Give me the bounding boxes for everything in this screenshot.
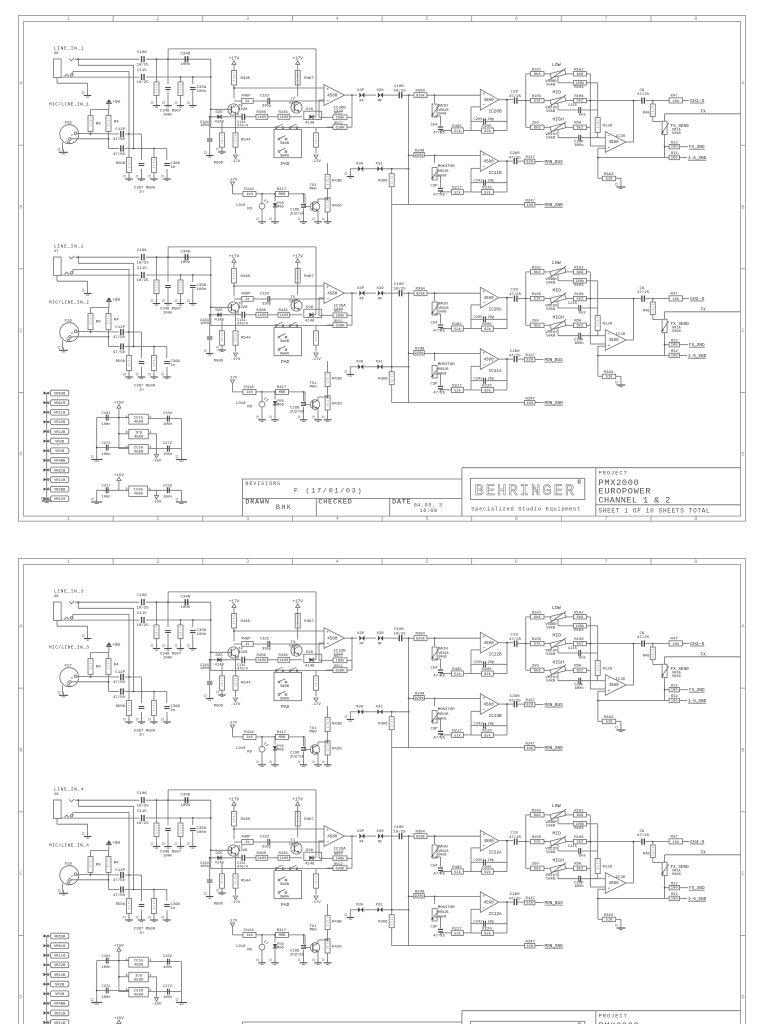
- power flag +17V: [229, 57, 240, 65]
- junction: [506, 358, 508, 360]
- label time value: [420, 508, 438, 514]
- power flag +17V: [229, 600, 240, 608]
- wire: [435, 374, 441, 385]
- resistor R509: [152, 356, 157, 371]
- svg-text:4580: 4580: [609, 338, 620, 343]
- wire: [315, 326, 317, 352]
- resistor R508: [116, 158, 132, 173]
- wire: [626, 101, 633, 142]
- svg-text:100: 100: [671, 689, 679, 693]
- wire: [233, 927, 244, 935]
- svg-text:R48: R48: [643, 655, 651, 659]
- resistor R467: [295, 71, 314, 86]
- svg-text:1n: 1n: [139, 734, 144, 738]
- wire: [586, 626, 597, 653]
- resistor R217: [452, 186, 464, 195]
- transistor T2: [228, 845, 248, 856]
- resistor R4: [106, 857, 119, 873]
- wire: [665, 146, 670, 148]
- wire: [233, 826, 235, 840]
- svg-text:R544: R544: [241, 682, 251, 686]
- resistor R60: [573, 320, 586, 329]
- svg-text:−: −: [608, 677, 611, 682]
- wire: [125, 134, 142, 160]
- svg-text:3320: 3320: [238, 306, 248, 310]
- capacitor C255: [474, 118, 495, 124]
- wire: [566, 73, 573, 75]
- svg-text:2: 2: [156, 16, 159, 22]
- svg-text:MID: MID: [553, 90, 562, 96]
- wire: [253, 643, 324, 645]
- power flag +17V: [292, 600, 303, 608]
- wire: [233, 729, 244, 737]
- capacitor C141: [237, 855, 248, 870]
- wire: [235, 690, 237, 696]
- capacitor C242: [474, 722, 495, 728]
- svg-text:100n: 100n: [163, 996, 172, 1000]
- wire: [180, 96, 182, 104]
- svg-text:R552: R552: [334, 320, 343, 324]
- wire: [586, 100, 590, 102]
- svg-text:C215: C215: [568, 647, 578, 651]
- capacitor C348: [181, 794, 191, 809]
- svg-text:47/25: 47/25: [637, 290, 650, 295]
- svg-text:®: ®: [578, 479, 582, 486]
- wire: [589, 815, 591, 887]
- svg-text:R467: R467: [304, 818, 314, 822]
- ground: [204, 695, 213, 700]
- svg-text:920k: 920k: [416, 94, 426, 99]
- resistor R249: [414, 890, 425, 899]
- ground: [313, 761, 322, 766]
- resistor R507: [178, 625, 183, 639]
- svg-text:+: +: [326, 829, 329, 834]
- wire: [211, 108, 231, 110]
- svg-text:+: +: [483, 92, 486, 97]
- net label FX_SND: [689, 343, 705, 348]
- resistor R48: [643, 104, 656, 117]
- resistor R467: [295, 269, 314, 284]
- wire: [558, 130, 598, 138]
- resistor R552: [333, 320, 347, 329]
- svg-text:SHEET 1 OF 10 SHEETS TOTAL: SHEET 1 OF 10 SHEETS TOTAL: [599, 508, 711, 515]
- svg-text:6k8: 6k8: [534, 866, 542, 871]
- svg-text:IC20A: IC20A: [489, 308, 502, 313]
- svg-text:R420: R420: [332, 403, 342, 407]
- registered mark: [578, 1022, 582, 1024]
- svg-text:+: +: [326, 88, 329, 93]
- wire: [424, 895, 480, 897]
- diode F50: [273, 935, 285, 961]
- resistor R60: [573, 122, 586, 131]
- wire: [319, 643, 324, 660]
- svg-text:100n: 100n: [197, 633, 207, 637]
- wire: [645, 643, 669, 645]
- svg-text:PROJECT: PROJECT: [599, 471, 628, 477]
- ground: [58, 692, 68, 697]
- wire: [598, 148, 605, 178]
- wire: [471, 120, 507, 122]
- resistor R544: [233, 874, 251, 888]
- junction: [525, 298, 527, 300]
- wire: [167, 289, 169, 302]
- svg-text:X31: X31: [376, 163, 384, 167]
- wire: [351, 293, 353, 315]
- resistor R465: [232, 71, 251, 86]
- potentiometer VR1A (FX_SEND): [661, 862, 689, 877]
- resistor R105: [530, 95, 544, 104]
- svg-text:R217: R217: [452, 927, 462, 931]
- svg-text:47/25: 47/25: [433, 674, 445, 679]
- wire: [148, 434, 156, 455]
- wire: [146, 256, 211, 258]
- wire: [586, 126, 590, 128]
- svg-text:R43B: R43B: [332, 180, 342, 184]
- capacitor C341: [200, 319, 213, 339]
- svg-text:RF: RF: [378, 298, 382, 302]
- ground: [270, 416, 279, 421]
- capacitor C271: [102, 442, 112, 457]
- resistor R495: [452, 125, 464, 134]
- svg-text:16:08: 16:08: [420, 508, 438, 514]
- capacitor C106: [137, 249, 150, 266]
- op-amp IC22B: [480, 632, 502, 657]
- label FX: [701, 653, 707, 658]
- wire: [535, 204, 544, 206]
- switch block PAD: [274, 130, 302, 159]
- wire: [350, 169, 358, 175]
- wire: [129, 367, 167, 375]
- svg-text:LD10: LD10: [236, 204, 246, 208]
- junction: [506, 840, 508, 842]
- capacitor C100: [394, 826, 407, 839]
- resistor R495: [452, 323, 464, 332]
- wire: [156, 59, 158, 82]
- svg-text:C54: C54: [430, 123, 438, 127]
- resistor R557: [333, 310, 347, 319]
- wire: [234, 87, 324, 89]
- junction: [233, 285, 235, 287]
- wire: [544, 867, 550, 869]
- junction: [77, 58, 79, 60]
- capacitor C106: [137, 594, 150, 611]
- label R506: [214, 705, 224, 709]
- svg-text:D25: D25: [216, 309, 224, 313]
- wire: [665, 854, 741, 856]
- wire: [535, 402, 544, 404]
- svg-text:82k: 82k: [484, 931, 492, 936]
- wire: [210, 602, 212, 670]
- svg-text:5k2: 5k2: [577, 99, 584, 104]
- junction: [408, 94, 410, 96]
- wire: [679, 887, 688, 889]
- svg-text:47/50: 47/50: [113, 695, 126, 700]
- wire: [664, 135, 666, 158]
- svg-text:R217: R217: [452, 729, 462, 733]
- wire: [408, 836, 410, 945]
- wire: [180, 620, 182, 625]
- wire: [97, 990, 129, 992]
- wire: [598, 700, 669, 702]
- resistor R420: [325, 741, 342, 755]
- svg-text:2: 2: [71, 331, 73, 335]
- connector X6 label: [54, 52, 59, 56]
- junction: [327, 198, 329, 200]
- potentiometer VR6A (MAIN): [431, 302, 449, 315]
- wire: [383, 835, 398, 837]
- wire: [558, 620, 573, 626]
- label CHECKED: [318, 499, 352, 507]
- junction: [156, 799, 194, 819]
- power flag +15V: [114, 401, 124, 408]
- capacitor C242: [474, 179, 495, 185]
- capacitor C272: [163, 985, 172, 1000]
- connector X3P: [357, 89, 365, 104]
- junction: [434, 896, 436, 898]
- resistor R247: [525, 940, 536, 948]
- net label MIC/LINE_IN_3: [49, 645, 89, 650]
- logo text BEHRINGER: [475, 482, 577, 500]
- resistor R22: [669, 141, 679, 149]
- capacitor C54: [430, 864, 445, 876]
- svg-text:CHECKED: CHECKED: [318, 499, 352, 507]
- resistor R147: [525, 156, 536, 164]
- wire: [471, 643, 507, 674]
- wire: [392, 928, 409, 946]
- connector VR63B: [44, 933, 69, 939]
- connector X8 label: [54, 595, 59, 599]
- svg-text:2U2/50: 2U2/50: [290, 952, 305, 957]
- capacitor C100: [394, 283, 407, 296]
- resistor R507: [178, 280, 183, 294]
- connector X30b: [356, 706, 364, 715]
- wire: [180, 275, 182, 280]
- wire: [327, 387, 329, 396]
- junction: [209, 314, 211, 316]
- wire: [319, 841, 324, 858]
- svg-text:−: −: [483, 647, 486, 652]
- wire: [327, 755, 329, 763]
- jack X6: [54, 58, 75, 78]
- op-amp IC30 (supply): [126, 486, 151, 496]
- resistor R247: [525, 199, 536, 207]
- svg-text:100: 100: [671, 898, 679, 902]
- connector VR11B: [44, 1020, 69, 1024]
- svg-text:1k0: 1k0: [246, 390, 254, 395]
- wire: [210, 59, 212, 127]
- junction: [506, 99, 508, 101]
- junction: [434, 94, 436, 96]
- capacitor C141: [237, 114, 248, 129]
- potentiometer VR21M (MID): [548, 638, 568, 650]
- wire: [289, 194, 311, 207]
- wire: [228, 311, 241, 315]
- ground: [187, 300, 196, 305]
- resistor R460: [242, 836, 254, 846]
- svg-text:C215: C215: [568, 302, 578, 306]
- wire: [297, 262, 299, 294]
- svg-text:SW4A: SW4A: [280, 154, 290, 158]
- svg-text:1k: 1k: [245, 99, 250, 104]
- wire: [57, 819, 88, 835]
- capacitor C271: [102, 985, 112, 1000]
- ground: [187, 102, 196, 107]
- wire: [125, 875, 142, 901]
- wire: [471, 318, 507, 320]
- wire: [71, 880, 119, 890]
- svg-text:100n: 100n: [200, 124, 209, 128]
- svg-text:+9V: +9V: [112, 643, 120, 648]
- wire: [192, 289, 194, 302]
- svg-text:920k: 920k: [416, 637, 426, 642]
- svg-text:SW4A: SW4A: [280, 895, 290, 899]
- svg-text:100k: 100k: [335, 314, 345, 319]
- junction: [153, 346, 155, 348]
- wire: [180, 419, 182, 458]
- svg-text:−: −: [483, 845, 486, 850]
- svg-text:620R: 620R: [335, 867, 345, 871]
- svg-text:51k: 51k: [454, 129, 462, 134]
- svg-text:C323: C323: [260, 637, 270, 641]
- wire: [434, 896, 436, 904]
- wire: [409, 945, 525, 947]
- transistor T4: [228, 647, 248, 658]
- net label CH1-S: [690, 98, 704, 104]
- svg-text:RF: RF: [378, 100, 382, 104]
- ground: [41, 497, 51, 502]
- jack X7: [54, 256, 75, 276]
- svg-text:D26: D26: [306, 849, 314, 853]
- power flag -17V: [311, 698, 321, 707]
- wire: [290, 116, 302, 118]
- wire: [118, 481, 120, 491]
- svg-text:10k: 10k: [672, 297, 680, 302]
- svg-text:820: 820: [526, 704, 534, 708]
- wire: [125, 692, 167, 704]
- transistor T3: [289, 641, 303, 656]
- capacitor C12P: [113, 326, 126, 340]
- op-amp IC20 (supply): [126, 444, 152, 454]
- wire: [192, 634, 194, 647]
- svg-text:R506: R506: [214, 903, 224, 907]
- junction: [77, 256, 79, 258]
- wire: [526, 669, 531, 671]
- junction: [261, 934, 304, 936]
- ground: [163, 843, 172, 848]
- wire: [363, 909, 377, 911]
- resistor R510: [220, 676, 225, 690]
- net label LINE_IN_1: [54, 47, 84, 52]
- potentiometer VR4BR (LOW): [548, 68, 568, 80]
- wire: [73, 71, 129, 74]
- wire: [61, 76, 139, 78]
- revisions table frame: [242, 479, 462, 516]
- wire: [256, 193, 276, 195]
- junction: [506, 642, 508, 644]
- capacitor C356: [190, 284, 207, 292]
- wire: [586, 73, 590, 75]
- junction: [90, 133, 110, 140]
- wire: [73, 614, 129, 617]
- wire: [558, 301, 598, 308]
- wire: [61, 274, 139, 276]
- svg-text:4148: 4148: [215, 121, 225, 125]
- svg-text:1n: 1n: [171, 907, 176, 911]
- wire: [327, 212, 329, 220]
- wire: [383, 94, 398, 96]
- svg-text:47/25: 47/25: [509, 637, 522, 642]
- svg-text:VR6LB: VR6LB: [54, 402, 66, 406]
- ground: [175, 843, 184, 848]
- wire: [679, 157, 687, 159]
- svg-text:920k: 920k: [416, 292, 426, 297]
- wire: [253, 298, 324, 300]
- wire: [424, 352, 480, 354]
- svg-text:50kB: 50kB: [546, 850, 556, 855]
- resistor R32: [669, 695, 679, 703]
- wire: [97, 417, 129, 419]
- ground: [270, 218, 279, 223]
- capacitor C19: [509, 634, 522, 647]
- capacitor C14Q: [113, 688, 126, 699]
- svg-text:47/25: 47/25: [433, 933, 445, 938]
- wire: [118, 408, 120, 449]
- label PROJECT: [599, 471, 628, 477]
- wire: [434, 638, 436, 646]
- wire: [261, 407, 263, 418]
- svg-text:50kB: 50kB: [672, 872, 681, 877]
- capacitor C14Q: [113, 145, 126, 156]
- op-amp IC33B: [324, 628, 346, 657]
- capacitor C6: [637, 632, 650, 647]
- wire: [535, 359, 544, 361]
- junction: [77, 799, 79, 801]
- capacitor C369: [139, 362, 145, 364]
- svg-text:IC30: IC30: [616, 333, 626, 337]
- svg-text:C: C: [741, 328, 744, 334]
- svg-text:C272: C272: [163, 442, 172, 446]
- svg-text:HIGH: HIGH: [553, 116, 565, 122]
- potentiometer VR11H (HIGH): [548, 319, 568, 331]
- wire: [365, 94, 376, 96]
- connector X31: [376, 706, 384, 715]
- junction: [209, 857, 211, 859]
- svg-text:4580: 4580: [484, 159, 495, 164]
- capacitor C166: [290, 737, 306, 763]
- wire: [679, 146, 688, 148]
- svg-text:M00: M00: [310, 187, 318, 191]
- ground: [58, 149, 68, 154]
- svg-text:R508: R508: [116, 360, 126, 364]
- resistor R106: [573, 836, 586, 845]
- wire: [125, 332, 142, 358]
- svg-text:2U2/50: 2U2/50: [290, 409, 305, 414]
- wire: [403, 292, 414, 294]
- svg-text:+: +: [483, 697, 486, 702]
- svg-text:47/25: 47/25: [433, 390, 445, 395]
- wire: [664, 333, 666, 356]
- wire: [392, 187, 409, 205]
- capacitor C141: [237, 657, 248, 672]
- wire: [679, 689, 688, 691]
- label LOW: [552, 62, 561, 68]
- svg-text:4148: 4148: [305, 122, 315, 126]
- ground: [187, 843, 196, 848]
- svg-text:4148: 4148: [215, 319, 225, 323]
- wire: [471, 841, 507, 872]
- capacitor C166: [290, 935, 306, 961]
- wire: [566, 616, 573, 618]
